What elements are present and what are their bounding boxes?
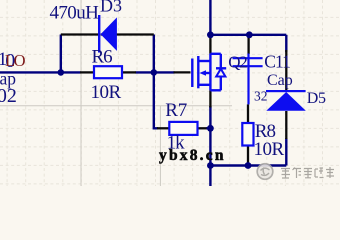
wire main horizontal left [0, 0, 286, 186]
node main-left riser [58, 69, 65, 76]
pin C11 top [247, 35, 249, 54]
pin C11 bottom / R8 top [247, 104, 249, 124]
wire right column upper [285, 35, 287, 52]
svg-text:Cap: Cap [267, 72, 293, 89]
diode D5 [266, 90, 306, 111]
svg-text:470uH: 470uH [50, 2, 100, 23]
svg-text:ybx8.cn: ybx8.cn [159, 147, 226, 164]
svg-text:D5: D5 [307, 90, 326, 107]
node R8 bottom rail [245, 162, 252, 169]
pins (black) [61, 35, 286, 166]
wire right column lower [285, 138, 287, 166]
svg-text:Q2: Q2 [228, 53, 247, 72]
svg-text:02: 02 [0, 85, 17, 107]
pin D3 left rail [61, 33, 98, 35]
mosfet Q2 body diode triangle [216, 69, 225, 77]
node main-right riser [151, 69, 158, 76]
junction node dots [58, 31, 253, 169]
wire R6 right to gate [136, 71, 175, 73]
wire drain top vertical [209, 0, 211, 35]
pin R6 left [80, 71, 94, 73]
svg-text:LO: LO [5, 51, 26, 70]
resistor R8 [242, 123, 253, 146]
pin Q2 gate [174, 71, 191, 73]
pin R7 right [198, 127, 207, 129]
mosfet Q2 arrow [199, 70, 206, 76]
pin R8 bottom [247, 146, 249, 166]
pin Q2 drain [209, 35, 211, 54]
pin Q2 source [209, 90, 211, 107]
svg-text:R6: R6 [92, 47, 113, 68]
pin D3 right rail [101, 33, 154, 35]
svg-text:10R: 10R [91, 82, 122, 103]
svg-text:C11: C11 [264, 52, 290, 72]
resistor R7 [169, 122, 197, 135]
pin D5 bottom [285, 111, 287, 139]
wire top right rail [209, 34, 286, 36]
pin R6 right [122, 71, 136, 73]
mosfet Q2 [192, 54, 226, 91]
watermark logo circle [257, 164, 273, 180]
node C11 rail [246, 31, 253, 38]
seam line vertical x=81 [80, 0, 82, 186]
pin D5 top [285, 50, 287, 90]
wire R7 to source node [206, 127, 210, 129]
watermark text 硬件笔记本 (drawn strokes) [281, 167, 334, 178]
wire right riser / R7 drop [154, 35, 158, 129]
wire left vertical riser [60, 35, 62, 73]
seam line vertical x=160.4 [159, 106, 161, 186]
svg-text:D3: D3 [100, 0, 122, 16]
seam line horizontal y=105.7 [0, 105, 232, 107]
diode D3 [98, 15, 117, 53]
capacitor C11 [233, 54, 263, 105]
resistor R6 [94, 66, 122, 78]
node source bottom rail [207, 162, 214, 169]
node R7 source [207, 125, 214, 132]
svg-text:10R: 10R [254, 139, 285, 160]
svg-text:R7: R7 [165, 100, 187, 121]
wire bottom rail [210, 164, 286, 166]
svg-text:32: 32 [254, 89, 268, 104]
pin R7 left [157, 127, 169, 129]
wire source vertical [209, 106, 211, 186]
node drain rail [207, 31, 214, 38]
